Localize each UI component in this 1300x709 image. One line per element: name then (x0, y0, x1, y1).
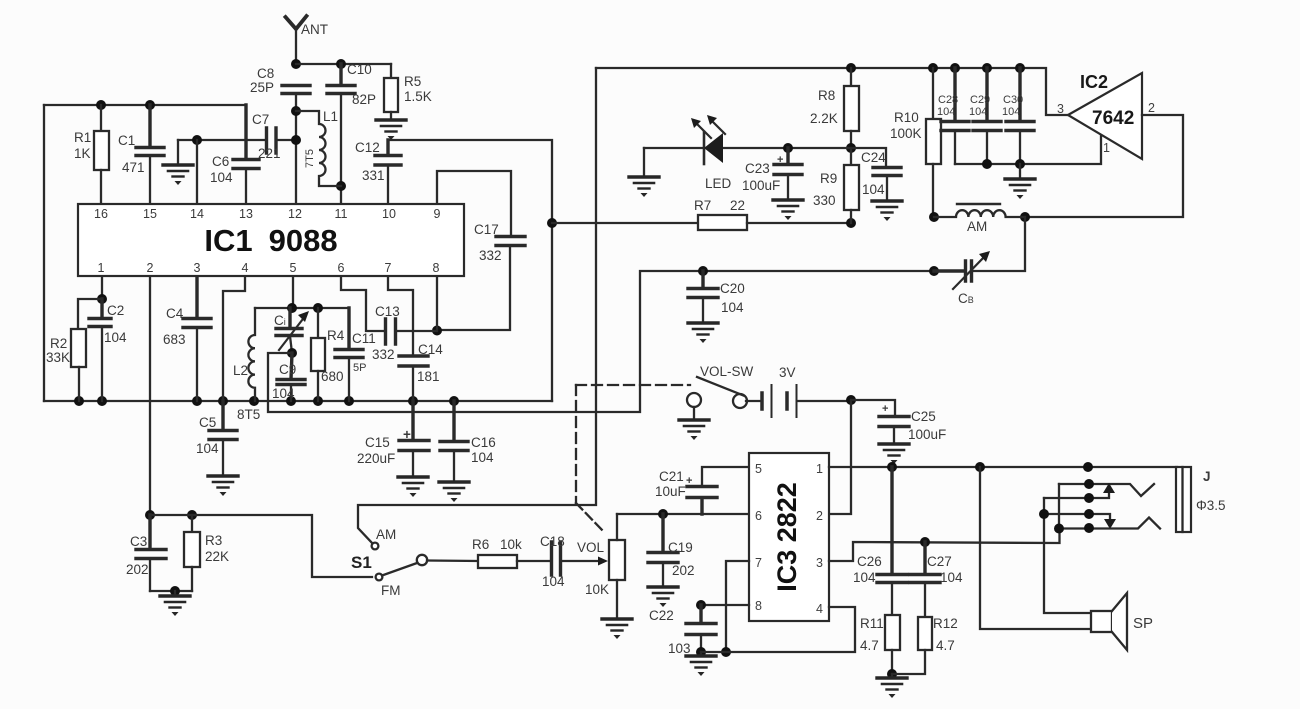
svg-text:FM: FM (381, 583, 401, 598)
svg-text:15: 15 (143, 207, 157, 221)
svg-text:8T5: 8T5 (237, 407, 260, 422)
capacitor C15 (399, 401, 429, 477)
svg-text:R8: R8 (818, 88, 835, 103)
wire pin7 step (388, 277, 413, 356)
node Cb left (929, 266, 939, 276)
svg-text:202: 202 (672, 563, 695, 578)
svg-text:S1: S1 (351, 553, 372, 572)
svg-text:104: 104 (853, 570, 876, 585)
svg-text:VOL: VOL (577, 540, 605, 555)
svg-text:104: 104 (940, 570, 963, 585)
jack tip row C (1044, 514, 1110, 519)
wire pin6 volume line (617, 513, 749, 515)
wire C3 R3 ground link (150, 590, 192, 592)
svg-text:22K: 22K (205, 549, 229, 564)
svg-text:C6: C6 (212, 154, 229, 169)
svg-text:100K: 100K (890, 126, 922, 141)
svg-text:Ci: Ci (274, 313, 286, 328)
capacitor C26 (877, 467, 907, 615)
svg-text:10K: 10K (585, 582, 609, 597)
capacitor C12 (375, 140, 401, 203)
node pin8-C13-C17 (432, 326, 442, 336)
ground C3R3 (174, 591, 176, 596)
svg-text:12: 12 (288, 207, 302, 221)
capacitor C27 (910, 542, 940, 617)
svg-text:6: 6 (338, 261, 345, 275)
svg-text:C7: C7 (252, 112, 269, 127)
svg-text:181: 181 (417, 369, 440, 384)
svg-text:C29: C29 (970, 94, 990, 106)
wire pin6 step (341, 277, 385, 331)
node C10 top (336, 59, 346, 69)
svg-text:5: 5 (290, 261, 297, 275)
svg-text:22: 22 (730, 198, 745, 213)
variable capacitor Ci (276, 308, 309, 353)
node bus R2 (74, 396, 84, 406)
svg-text:J: J (1203, 469, 1211, 484)
node row D left (1054, 524, 1064, 534)
svg-text:C21: C21 (659, 469, 684, 484)
ground C15 (398, 477, 428, 497)
svg-text:3: 3 (1057, 102, 1064, 116)
svg-text:16: 16 (94, 207, 108, 221)
svg-text:3: 3 (194, 261, 201, 275)
node C1 top (145, 100, 155, 110)
svg-text:3V: 3V (779, 365, 796, 380)
node R3 top (187, 510, 197, 520)
wire R7 line (552, 222, 698, 224)
inductor AM coil (934, 204, 1025, 217)
wire AM tank link (268, 271, 934, 412)
svg-text:2: 2 (1148, 101, 1155, 115)
ground C24 (872, 201, 902, 221)
svg-text:C11: C11 (352, 331, 376, 346)
resistor R1 (94, 105, 109, 203)
antenna ANT (286, 16, 307, 64)
node R1 top (96, 100, 106, 110)
resistor R12 (892, 617, 932, 674)
svg-text:104: 104 (937, 106, 955, 118)
resistor R9 (844, 148, 859, 223)
resistor R6 (478, 555, 551, 568)
ground C5 (208, 476, 238, 496)
svg-text:680: 680 (321, 369, 344, 384)
svg-text:25P: 25P (250, 80, 274, 95)
wire pin9 to C17 (437, 171, 511, 236)
resistor R7 (698, 215, 851, 230)
ground C20 (688, 323, 718, 343)
svg-text:104: 104 (104, 330, 127, 345)
wire top-left rail (44, 104, 246, 106)
svg-text:202: 202 (126, 562, 149, 577)
node bus C11 (344, 396, 354, 406)
LED diode (704, 132, 723, 164)
svg-text:R4: R4 (327, 328, 345, 343)
node jack row C terminal (1084, 509, 1094, 519)
wire ANT rail to R5 (296, 63, 391, 65)
speaker SP (1091, 593, 1127, 650)
wire pin1 stub (101, 277, 103, 299)
node C20 top (698, 266, 708, 276)
node C23 top (783, 143, 793, 153)
ground C25 (879, 444, 909, 464)
resistor R5 (384, 64, 398, 120)
svg-text:C26: C26 (857, 554, 882, 569)
svg-text:8: 8 (433, 261, 440, 275)
capacitor C1 (136, 105, 164, 203)
node C27 top (920, 537, 930, 547)
resistor R10 (926, 68, 941, 217)
capacitor C10 (327, 64, 355, 203)
svg-text:C30: C30 (1003, 94, 1023, 106)
node bus C16 (449, 396, 459, 406)
node R9 bottom (846, 218, 856, 228)
wire left rail (43, 105, 45, 401)
svg-text:1K: 1K (74, 146, 91, 161)
svg-text:C16: C16 (471, 435, 496, 450)
capacitor C29 (973, 68, 1001, 164)
svg-text:R12: R12 (933, 616, 958, 631)
svg-text:AM: AM (376, 527, 396, 542)
svg-text:4.7: 4.7 (860, 638, 879, 653)
variable capacitor Cb (934, 217, 1025, 289)
capacitor C24 (873, 168, 901, 202)
IC3 box (749, 453, 829, 621)
svg-text:10: 10 (382, 207, 396, 221)
svg-text:3: 3 (816, 556, 823, 570)
svg-text:LED: LED (705, 176, 732, 191)
wire pin14 stub (196, 140, 198, 203)
svg-text:7: 7 (385, 261, 392, 275)
svg-text:C17: C17 (474, 222, 499, 237)
node bus C2 (97, 396, 107, 406)
resistor R2 (71, 299, 102, 401)
svg-text:C22: C22 (649, 608, 674, 623)
node bus C14 (408, 396, 418, 406)
svg-text:VOL-SW: VOL-SW (700, 364, 754, 379)
node Ci-C9 (287, 348, 297, 358)
svg-text:330: 330 (813, 193, 836, 208)
capacitor C30 (1006, 68, 1034, 164)
svg-text:C27: C27 (927, 554, 952, 569)
ground VOL (602, 619, 632, 639)
node R4 top (313, 303, 323, 313)
jack arrow down (1104, 519, 1116, 529)
svg-text:2.2K: 2.2K (810, 111, 838, 126)
ground VOL-SW (693, 407, 695, 420)
svg-text:683: 683 (163, 332, 186, 347)
svg-text:8: 8 (755, 599, 762, 613)
wire pin7 (726, 561, 749, 652)
node bus C9 (286, 396, 296, 406)
node R7 left (547, 218, 557, 228)
svg-text:C2: C2 (107, 303, 124, 318)
svg-text:Φ3.5: Φ3.5 (1196, 498, 1226, 513)
inductor L2 (248, 308, 255, 401)
node jack sleeve (1083, 462, 1093, 472)
node pin2 S1 (145, 510, 155, 520)
svg-text:332: 332 (372, 347, 395, 362)
node bus C4 (192, 396, 202, 406)
capacitor C8 (282, 86, 310, 204)
svg-text:C19: C19 (668, 540, 693, 555)
svg-text:R1: R1 (74, 130, 91, 145)
svg-text:104: 104 (721, 300, 744, 315)
svg-text:104: 104 (542, 574, 565, 589)
node jack row B terminal (1084, 493, 1094, 503)
capacitor C25 (879, 417, 909, 445)
wire pin4 ground (701, 607, 855, 652)
dashed link VOL-SW (576, 384, 690, 386)
node pin14 (192, 135, 202, 145)
svg-text:C18: C18 (540, 534, 565, 549)
ground R5 (376, 120, 406, 140)
switch S1 lever (382, 563, 417, 576)
svg-text:221: 221 (258, 146, 281, 161)
svg-text:R6: R6 (472, 537, 489, 552)
svg-text:C10: C10 (347, 62, 372, 77)
IC1 pin numbers bottom (98, 261, 440, 275)
node pin1 (97, 294, 107, 304)
node C28 top (950, 63, 960, 73)
node row C left (1039, 509, 1049, 519)
resistor R8 (844, 68, 859, 148)
svg-text:1: 1 (816, 462, 823, 476)
ground bypass (1019, 164, 1021, 179)
svg-text:7642: 7642 (1092, 108, 1134, 129)
jack J body (1176, 467, 1191, 532)
wire LED node line (644, 148, 886, 167)
node R10 top (928, 63, 938, 73)
capacitor C6 (233, 105, 259, 203)
capacitor C7 (267, 128, 297, 153)
svg-text:R2: R2 (50, 336, 67, 351)
svg-text:1.5K: 1.5K (404, 89, 432, 104)
node L1 bottom junction (336, 181, 346, 191)
wire pin8 stub (436, 277, 438, 330)
svg-text:104: 104 (210, 170, 233, 185)
svg-text:C25: C25 (911, 409, 936, 424)
node C8-L1 junction (291, 106, 301, 116)
node SP return (975, 462, 985, 472)
resistor R3 (184, 515, 200, 591)
wire speaker return (980, 467, 1091, 629)
wire tank top line (255, 307, 349, 309)
wire pin5 stub (292, 277, 294, 308)
inductor L1 (296, 111, 341, 186)
svg-text:471: 471 (122, 160, 145, 175)
node C29 bottom (982, 159, 992, 169)
svg-text:9: 9 (434, 207, 441, 221)
svg-text:10k: 10k (500, 537, 522, 552)
svg-text:+: + (686, 475, 692, 487)
svg-text:C15: C15 (365, 435, 390, 450)
node AM coil right (1020, 212, 1030, 222)
wire bus y401 (44, 400, 552, 402)
svg-text:10uF: 10uF (655, 484, 686, 499)
op-amp IC2 (1068, 73, 1142, 159)
resistor R4 (311, 308, 325, 401)
capacitor C20 (688, 271, 718, 323)
switch VOL-SW ground contact (687, 393, 701, 407)
node ANT junction (291, 59, 301, 69)
potentiometer VOL body (609, 514, 625, 619)
dashed link to VOL (576, 503, 604, 532)
capacitor C2 (89, 299, 111, 401)
wire pin3 line (829, 528, 1060, 561)
ground C23 (773, 200, 803, 220)
svg-text:IC19088: IC19088 (204, 223, 337, 258)
svg-text:L1: L1 (323, 109, 338, 124)
jack arrow up (1103, 483, 1115, 493)
node R11 ground (887, 669, 897, 679)
node bus R4 (313, 396, 323, 406)
svg-text:IC2: IC2 (1080, 72, 1108, 92)
svg-text:13: 13 (239, 207, 253, 221)
wire pin4 step (223, 277, 245, 401)
jack switched row A (1059, 484, 1154, 496)
node C7 right (291, 135, 301, 145)
svg-text:C28: C28 (938, 94, 958, 106)
svg-text:R7: R7 (694, 198, 711, 213)
node C3R3 ground (170, 586, 180, 596)
node jack row A terminal (1084, 479, 1094, 489)
capacitor C3 (136, 515, 166, 591)
svg-text:C9: C9 (279, 362, 296, 377)
capacitor C21 (687, 467, 749, 514)
svg-text:104: 104 (862, 182, 885, 197)
svg-text:C14: C14 (418, 342, 443, 357)
capacitor C4 (183, 277, 211, 401)
capacitor C13 (386, 319, 438, 344)
wire V+ rail (596, 68, 1068, 115)
node C30 top (1015, 63, 1025, 73)
svg-text:5: 5 (755, 462, 762, 476)
svg-text:1: 1 (98, 261, 105, 275)
wire S1 AM up (358, 68, 596, 544)
node C19 top (658, 509, 668, 519)
wire pin1 output rail (829, 466, 1177, 468)
ground pin14 (177, 140, 179, 165)
svg-text:7: 7 (755, 556, 762, 570)
svg-text:220uF: 220uF (357, 451, 395, 466)
node C30 bottom (1015, 159, 1025, 169)
svg-text:104: 104 (969, 106, 987, 118)
svg-text:104: 104 (1002, 106, 1020, 118)
svg-text:103: 103 (668, 641, 691, 656)
svg-text:5P: 5P (353, 362, 366, 374)
dashed link vertical (575, 385, 577, 503)
node pin7 ground (721, 647, 731, 657)
node bus L2 (249, 396, 259, 406)
node AM coil left (929, 212, 939, 222)
node C26 top (887, 462, 897, 472)
svg-text:C12: C12 (355, 140, 380, 155)
node 3V rail (846, 395, 856, 405)
node C29 top (982, 63, 992, 73)
switch S1 FM contact (376, 574, 383, 581)
wire IC2 output (1025, 115, 1183, 217)
IC1 box (78, 204, 464, 276)
capacitor C23 (774, 148, 802, 200)
wire pin14 ground line (178, 139, 265, 141)
wire S1 pole to R6 (427, 559, 478, 562)
svg-text:C5: C5 (199, 415, 216, 430)
svg-text:14: 14 (190, 207, 204, 221)
wire jack AD vertical (1058, 484, 1060, 529)
svg-text:11: 11 (335, 207, 348, 221)
svg-text:2: 2 (816, 509, 823, 523)
svg-text:SP: SP (1133, 615, 1153, 632)
node R8 top (846, 63, 856, 73)
svg-text:R11: R11 (860, 616, 884, 631)
node C22 ground (696, 647, 706, 657)
svg-text:R9: R9 (820, 171, 837, 186)
svg-text:104: 104 (196, 441, 219, 456)
svg-text:331: 331 (362, 168, 385, 183)
potentiometer VOL arrow (598, 557, 608, 566)
svg-text:+: + (882, 403, 888, 415)
switch S1 pole (417, 555, 427, 565)
wire battery to C25 (851, 400, 895, 416)
svg-text:ANT: ANT (301, 22, 328, 37)
svg-text:C23: C23 (745, 161, 770, 176)
svg-text:L2: L2 (233, 363, 248, 378)
capacitor C19 (648, 514, 678, 587)
svg-text:82P: 82P (352, 92, 376, 107)
svg-text:4.7: 4.7 (936, 638, 955, 653)
resistor R11 (885, 615, 900, 674)
svg-text:R5: R5 (404, 74, 421, 89)
ground C19 (648, 587, 678, 607)
ground C16 (439, 482, 469, 502)
ground R11 (891, 674, 893, 678)
wire pin2 long (149, 277, 151, 515)
svg-text:1: 1 (1103, 141, 1110, 155)
svg-text:33K: 33K (46, 350, 70, 365)
wire bypass ground rail (955, 136, 1101, 164)
svg-text:C4: C4 (166, 306, 184, 321)
svg-text:100uF: 100uF (908, 427, 946, 442)
svg-text:C1: C1 (118, 133, 135, 148)
IC1 pin numbers top (94, 207, 440, 221)
svg-text:C20: C20 (720, 281, 745, 296)
battery 3V (746, 385, 851, 417)
switch VOL-SW pole contact (733, 394, 747, 408)
svg-text:104: 104 (471, 450, 494, 465)
svg-text:4: 4 (242, 261, 249, 275)
capacitor C9 (277, 353, 305, 401)
svg-text:6: 6 (755, 509, 762, 523)
switch VOL-SW lever (697, 377, 744, 396)
capacitor C11 (335, 308, 363, 401)
svg-text:100uF: 100uF (742, 178, 780, 193)
node LED line (846, 143, 856, 153)
svg-text:104: 104 (272, 386, 295, 401)
wire jack BC to speaker (1044, 498, 1091, 613)
capacitor C17 (437, 237, 525, 331)
svg-text:R10: R10 (894, 110, 919, 125)
ground LED (643, 148, 645, 177)
jack switched row D (1059, 518, 1160, 529)
node C22 top (696, 600, 706, 610)
wire pin8 (701, 604, 749, 606)
node pin5-Ci (287, 303, 297, 313)
svg-text:AM: AM (967, 219, 987, 234)
LED arrows (691, 115, 725, 138)
node bus C5 (218, 396, 228, 406)
capacitor C22 (686, 605, 716, 652)
